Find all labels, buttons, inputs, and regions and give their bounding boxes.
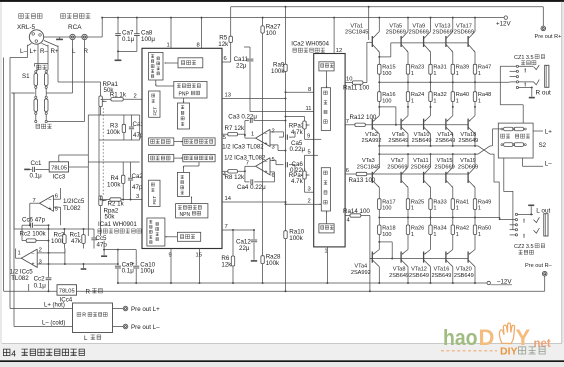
- svg-text:TL082: TL082: [63, 205, 81, 212]
- resistor Ra39 1: [451, 64, 454, 74]
- svg-text:1: 1: [478, 206, 481, 212]
- svg-text:1: 1: [478, 232, 481, 238]
- ICa2 pin 6 / Ra13 100: [345, 173, 356, 175]
- svg-text:VTa4: VTa4: [354, 264, 367, 270]
- wire S1 row connections: [10, 57, 28, 59]
- terminal Pre out L+: [123, 306, 128, 311]
- svg-text:RCA: RCA: [68, 24, 82, 31]
- IC1 pin 1: [170, 18, 172, 49]
- wire VTa15 emitter down: [452, 187, 454, 198]
- svg-text:15: 15: [196, 253, 202, 259]
- resistor Ra9 100k: [284, 64, 287, 71]
- svg-text:TL082: TL082: [11, 275, 29, 282]
- svg-text:100μ: 100μ: [141, 36, 155, 43]
- capacitor Ca5 0.22u: [279, 136, 284, 138]
- svg-text:3: 3: [308, 187, 311, 193]
- arrow ICa2 cc to bias1: [326, 71, 328, 88]
- svg-text:2SB649: 2SB649: [454, 273, 474, 279]
- wire VTa9 collector to +12V rail: [430, 18, 432, 32]
- block PNP diff (top): [174, 81, 207, 98]
- jack CZ2 top wire to ground: [518, 213, 532, 215]
- wire Ra39 to output rail: [452, 74, 454, 82]
- wire lower output rail (y217.5): [379, 217, 500, 219]
- svg-text:Pre out R+: Pre out R+: [535, 34, 562, 40]
- svg-text:2SC1845: 2SC1845: [345, 30, 368, 36]
- connector RCA L: [70, 34, 75, 39]
- svg-text:22μ: 22μ: [239, 245, 250, 252]
- wire row3 base bus extension: [367, 173, 468, 175]
- switch S2 contact row2: [504, 143, 513, 147]
- wire Ra47 to output rail: [474, 74, 476, 82]
- block NPN diff (bottom): [176, 204, 208, 218]
- svg-text:XRL-5: XRL-5: [17, 24, 36, 31]
- svg-text:Cc6 47p: Cc6 47p: [22, 217, 46, 224]
- wire Ra23 to output rail: [407, 74, 409, 82]
- label 非平衡 S2: [515, 134, 518, 138]
- terminal -12V: [487, 281, 490, 284]
- svg-text:+: +: [49, 206, 52, 212]
- wire opamp lower output: [16, 257, 22, 259]
- wire XLR to ground: [44, 36, 60, 38]
- svg-text:R7 12k: R7 12k: [225, 125, 246, 132]
- wire VTa15 collector to mid rail 2: [452, 154, 454, 167]
- svg-text:VTa5: VTa5: [389, 23, 402, 29]
- wire opamp upper inputs: [54, 198, 61, 200]
- wire row3 base bus: [367, 173, 373, 175]
- wire RPa4 bottom to pin3: [304, 179, 306, 192]
- S1 lower contacts: [35, 120, 37, 122]
- label 平衡 S2: [501, 134, 505, 138]
- wire VTa11 collector to mid rail 2: [430, 154, 432, 167]
- svg-text:CZ2 3.5: CZ2 3.5: [514, 244, 534, 250]
- svg-text:Ra23: Ra23: [411, 65, 424, 71]
- svg-text:ICa2 WH0504: ICa2 WH0504: [291, 41, 329, 47]
- svg-text:1/2 ICa3 TL082: 1/2 ICa3 TL082: [222, 145, 264, 151]
- ground left of Cc1: [24, 168, 30, 170]
- svg-text:L: L: [84, 335, 88, 342]
- wire row1 base bus: [391, 42, 468, 44]
- svg-text:2SB649: 2SB649: [435, 138, 455, 144]
- svg-text:–: –: [49, 197, 52, 203]
- jack CZ1 left wiring: [500, 65, 516, 67]
- svg-text:Ra48: Ra48: [478, 92, 491, 98]
- svg-text:+: +: [265, 169, 268, 175]
- bus x=262.6 vertical: [262, 18, 264, 26]
- block 恒流源 ICa2 top: [319, 62, 334, 71]
- svg-text:VTa13: VTa13: [435, 23, 451, 29]
- resistor Ra32 1: [430, 82, 432, 92]
- terminal +12V: [504, 16, 507, 19]
- IC1 pin 14 wire: [222, 201, 286, 203]
- switch S1 contact 2b: [44, 99, 48, 112]
- arrow PNP to driver: [183, 98, 185, 103]
- resistor Ra27 100: [261, 26, 264, 33]
- wire Ra17 to lower output rail: [378, 210, 380, 218]
- wire L- cold: [14, 326, 73, 328]
- svg-text:12: 12: [336, 48, 342, 54]
- svg-text:S2: S2: [539, 142, 547, 149]
- svg-text:100k: 100k: [266, 260, 280, 267]
- svg-text:2SB649: 2SB649: [389, 273, 409, 279]
- wire rail1 to VTa1 base: [368, 7, 370, 40]
- wire VTa4 collector to V- rail: [378, 267, 380, 283]
- svg-text:VTa8: VTa8: [393, 267, 406, 273]
- svg-text:+: +: [32, 262, 35, 268]
- ICa2 pin 1: [326, 247, 328, 283]
- wire long vertical input left A: [3, 58, 5, 292]
- wire opamp upper output: [30, 202, 40, 204]
- wire VTa16 collector to V- rail: [452, 267, 454, 283]
- svg-text:100: 100: [382, 98, 391, 104]
- ground near XLR: [56, 38, 63, 40]
- svg-text:3: 3: [272, 145, 275, 151]
- wire VTa19 collector to mid rail 2: [474, 154, 476, 167]
- block 恒流源 (bottom): [177, 232, 200, 241]
- jack CZ2 wiper arrows: [523, 219, 525, 223]
- svg-text:VTa9: VTa9: [412, 23, 425, 29]
- wire +12V rail (upper): [102, 17, 504, 19]
- IC1 pin 8: [201, 18, 203, 49]
- svg-text:NPN: NPN: [180, 212, 191, 218]
- svg-text:100k: 100k: [107, 129, 121, 136]
- dashed gang line RPa1-RPa2: [102, 108, 104, 196]
- terminal Pre out L-: [123, 324, 128, 329]
- svg-text:0.1μ: 0.1μ: [122, 36, 135, 43]
- switch S2 box: [498, 123, 533, 158]
- svg-text:Ra39: Ra39: [456, 65, 469, 71]
- wire VTa18 collector to mid rail: [474, 134, 476, 146]
- svg-text:Ra50: Ra50: [478, 226, 491, 232]
- switch S1 contact 1b: [44, 74, 48, 86]
- resistor Ra34 1: [430, 218, 432, 226]
- wire VTa19 emitter down: [474, 187, 476, 198]
- wire opamp b input 6: [270, 171, 275, 173]
- block driver (bottom): [177, 172, 189, 196]
- svg-text:47k: 47k: [71, 238, 82, 245]
- svg-text:1: 1: [411, 206, 414, 212]
- svg-text:1: 1: [324, 249, 327, 255]
- svg-text:50k: 50k: [105, 214, 116, 221]
- switch S2 contact row1: [504, 127, 513, 131]
- svg-text:DIY: DIY: [500, 346, 518, 358]
- wire cascade stub VTa8 base: [379, 241, 392, 243]
- resistor Ra33 1: [429, 199, 432, 210]
- wire VTa13 emitter: [452, 52, 454, 64]
- svg-text:1: 1: [411, 71, 414, 77]
- label 道插座 CZ1: [521, 61, 525, 65]
- resistor Ra15 100: [378, 64, 381, 74]
- wire Ra14 to VTa4 base: [361, 215, 370, 217]
- block 与R声道相同: [73, 303, 113, 333]
- svg-text:2SD669: 2SD669: [454, 30, 474, 36]
- svg-text:VTa1: VTa1: [350, 23, 363, 29]
- svg-text:–: –: [32, 251, 35, 257]
- block NPN diff (top): [149, 52, 163, 80]
- svg-text:2: 2: [272, 129, 275, 135]
- connector XRL-5: [29, 30, 43, 44]
- wire opamp a input 2: [270, 131, 284, 133]
- svg-text:VTa17: VTa17: [456, 23, 472, 29]
- resistor Ra31 1: [429, 64, 432, 74]
- wire opamp b output: [238, 170, 245, 172]
- arrow constant current B: [165, 236, 177, 238]
- wire R1 to IC pin2: [123, 98, 142, 100]
- svg-text:D: D: [479, 325, 495, 350]
- svg-text:Pre out R–: Pre out R–: [525, 263, 553, 269]
- ground below Ca7: [115, 59, 122, 61]
- svg-text:VTa12: VTa12: [411, 267, 427, 273]
- svg-text:1: 1: [433, 206, 436, 212]
- svg-text:Ca3 0.22μ: Ca3 0.22μ: [228, 113, 257, 120]
- op-amp 1/2 ICc5 TL082 (lower): [21, 249, 37, 267]
- svg-text:ICc3: ICc3: [53, 174, 66, 181]
- svg-text:2SB649: 2SB649: [412, 138, 432, 144]
- IC ICa1 WH0901 box: [142, 48, 222, 248]
- wire to Pre out L-: [113, 326, 124, 328]
- svg-text:Ra49: Ra49: [478, 199, 491, 205]
- wire busM to ICa2 pin2: [286, 203, 314, 205]
- wire 78L05 top link: [58, 155, 60, 162]
- wire Ca2/R4 top: [88, 161, 139, 163]
- wire 78L05 out: [69, 166, 89, 168]
- svg-text:0.1μ: 0.1μ: [30, 173, 43, 180]
- wire Ra41 to lower output rail: [452, 210, 454, 218]
- wire RPa1 lower: [100, 107, 102, 115]
- arrow driver B up: [183, 166, 185, 172]
- wire cap common to ground: [118, 50, 137, 52]
- svg-text:L+: L+: [545, 129, 552, 136]
- svg-text:VTa10: VTa10: [414, 132, 430, 138]
- IC1 pin 9 wire: [170, 249, 172, 284]
- jack CZ2 contacts: [515, 213, 517, 215]
- svg-text:2SB649: 2SB649: [409, 273, 429, 279]
- wire Ra15 to output rail: [378, 74, 380, 82]
- wire output rail R+ (y82.2): [379, 81, 509, 83]
- svg-text:R: R: [82, 313, 86, 319]
- svg-text:S1: S1: [22, 73, 30, 80]
- wire row4 base bus: [370, 258, 468, 260]
- svg-text:2SD669: 2SD669: [434, 165, 454, 171]
- svg-text:Ra31: Ra31: [433, 65, 446, 71]
- svg-text:Ra15: Ra15: [382, 65, 395, 71]
- svg-text:5: 5: [223, 135, 226, 141]
- ICa2 pin 4 / Ra14 100: [345, 215, 350, 217]
- wire Ra25 to lower output rail: [407, 210, 409, 218]
- svg-text:1: 1: [478, 98, 481, 104]
- switch S1 contact 2a: [34, 99, 38, 112]
- svg-text:1: 1: [251, 132, 254, 138]
- label 平衡 (S1): [37, 65, 41, 69]
- capacitor Ca6 0.22u: [276, 164, 284, 166]
- jack CZ1 plug bar: [545, 65, 549, 87]
- resistor Ra18 100: [378, 218, 380, 226]
- svg-text:L– (cold): L– (cold): [42, 320, 65, 326]
- svg-text:2SD669: 2SD669: [409, 30, 429, 36]
- svg-text:Ra32: Ra32: [433, 92, 446, 98]
- wire RPa4 to ICa2 pin5: [304, 155, 306, 171]
- capacitor Cc5 47p: [93, 229, 95, 237]
- svg-text:8: 8: [197, 43, 200, 49]
- svg-text:VTa2: VTa2: [365, 132, 378, 138]
- wire RCA leads: [72, 40, 74, 58]
- svg-text:10: 10: [346, 77, 352, 83]
- svg-text:12k: 12k: [218, 41, 229, 48]
- wire VTa9 emitter: [430, 52, 432, 64]
- potentiometer RPa2 50k: [99, 196, 102, 206]
- ground below Cc5 branch: [101, 255, 107, 257]
- ground rail y291.2 right part: [285, 290, 287, 292]
- svg-text:100μ: 100μ: [140, 268, 154, 275]
- block driver (top): [177, 103, 189, 129]
- op-amp ICa3b: [256, 158, 270, 175]
- svg-text:VTa19: VTa19: [460, 158, 476, 164]
- svg-text:+: +: [265, 141, 268, 147]
- label 平衡输入: [19, 14, 24, 19]
- svg-text:2SB649: 2SB649: [388, 138, 408, 144]
- wire XLR shield to +12V rail: [60, 36, 103, 38]
- wire VTa3 emitter down: [378, 187, 380, 198]
- capacitor Ca8 100u: [136, 18, 138, 34]
- wire VTa11 emitter down: [430, 187, 432, 198]
- svg-text:Ra25: Ra25: [411, 199, 424, 205]
- wire VTa7 collector to mid rail 2: [407, 154, 409, 167]
- svg-text:6: 6: [224, 56, 227, 62]
- svg-text:2: 2: [308, 199, 311, 205]
- svg-text:R out: R out: [536, 89, 551, 96]
- terminal Pre out R-: [544, 276, 546, 291]
- svg-text:3: 3: [39, 260, 42, 266]
- svg-text:ICa1 WH0901: ICa1 WH0901: [98, 221, 137, 228]
- wire opamp lower input 2: [37, 252, 48, 254]
- svg-text:PNP: PNP: [179, 92, 190, 98]
- IC1 pin 15 wire: [199, 249, 201, 284]
- svg-text:VTa15: VTa15: [437, 158, 453, 164]
- resistor Ra24 1: [407, 82, 409, 92]
- bottom border line: [0, 360, 564, 362]
- capacitor Ca12 22u: [253, 230, 255, 239]
- svg-text:14: 14: [225, 196, 232, 202]
- logo hand icon: [499, 323, 514, 344]
- svg-text:47p: 47p: [132, 184, 143, 191]
- block 互补推挽输出 A: [183, 138, 215, 145]
- wire RPa2 bottom: [100, 206, 102, 236]
- svg-text:100: 100: [382, 206, 391, 212]
- op-amp ICa3a: [256, 129, 270, 146]
- block 互补推挽输出 B: [183, 154, 215, 161]
- resistor Ra23 1: [406, 64, 409, 74]
- svg-text:9: 9: [307, 133, 310, 139]
- wire S2 to L+: [533, 130, 543, 132]
- svg-text:100: 100: [382, 232, 391, 238]
- svg-text:net: net: [534, 338, 551, 350]
- wire Ra33 to lower output rail: [430, 210, 432, 218]
- IC1 pin 7 wire: [222, 229, 254, 231]
- resistor Ra41 1: [451, 199, 454, 210]
- svg-text:9: 9: [169, 253, 172, 259]
- ICa2 pin 9 stub: [314, 138, 322, 140]
- wire VTa13 collector to +12V rail: [452, 18, 454, 32]
- svg-text:100k: 100k: [107, 182, 121, 189]
- block 恒压偏置 A: [149, 138, 174, 145]
- label 道插座 CZ2: [519, 250, 523, 254]
- wire to CZ2 feed A: [490, 154, 510, 220]
- wire VTa2 collector to mid rail: [378, 134, 380, 146]
- svg-text:Y: Y: [516, 325, 531, 350]
- resistor Ra10 100k: [284, 231, 287, 239]
- logo 真有理 text: [519, 347, 526, 354]
- svg-text:12k: 12k: [221, 262, 232, 269]
- svg-text:0.1μ: 0.1μ: [34, 283, 47, 290]
- regulator 78L05 ICc3: [49, 162, 68, 172]
- wire VTa8 collector to V- rail: [407, 267, 409, 283]
- svg-text:Ra41: Ra41: [456, 199, 469, 205]
- svg-text:11: 11: [306, 106, 312, 112]
- wire opamp a input 3: [270, 144, 278, 146]
- wire R3/Ca1 top: [99, 114, 140, 116]
- ground mid: [83, 264, 85, 268]
- svg-text:hao: hao: [443, 325, 478, 350]
- svg-text:Ra18: Ra18: [382, 226, 395, 232]
- potentiometer RPa1 50k: [99, 96, 102, 107]
- svg-text:2: 2: [134, 94, 137, 100]
- ICa2 pin 7 / Ra12 100: [345, 124, 355, 126]
- wire rail1 to Pre out R+: [542, 7, 544, 26]
- wire VTa7 emitter down: [407, 187, 409, 198]
- block FET opamp (top): [149, 91, 160, 117]
- wire Ca9/Ca10 top: [104, 249, 136, 251]
- svg-text:R–: R–: [40, 48, 48, 55]
- resistor Ra47 1: [473, 64, 476, 74]
- svg-text:R8 12k: R8 12k: [225, 174, 246, 181]
- svg-text:100k: 100k: [289, 235, 303, 242]
- capacitor Ca7 0.1u: [117, 18, 119, 34]
- resistor Ra17 100: [378, 199, 381, 210]
- wire VTa14 collector to mid rail: [452, 134, 454, 146]
- svg-text:7: 7: [225, 224, 228, 230]
- svg-text:1: 1: [433, 98, 436, 104]
- wire opamp a output: [245, 137, 256, 139]
- svg-text:2SD669: 2SD669: [386, 30, 406, 36]
- arrow ICa2 cc bottom to bias2: [326, 211, 328, 224]
- top border line: [0, 0, 564, 2]
- svg-text:Ca4 0.22μ: Ca4 0.22μ: [237, 184, 266, 191]
- wire VTa3 collector to mid rail 2: [378, 154, 380, 167]
- svg-text:Rc2 100k: Rc2 100k: [20, 231, 47, 238]
- svg-text:100: 100: [266, 30, 277, 37]
- ICa2 pin 12: [333, 18, 335, 54]
- svg-text:8: 8: [308, 87, 311, 93]
- svg-text:Pre out L–: Pre out L–: [131, 324, 160, 331]
- svg-text:R: R: [86, 289, 91, 296]
- IC1 pin 13 wire: [222, 98, 286, 100]
- svg-text:5: 5: [308, 150, 311, 156]
- label 非平衡输入: [61, 14, 66, 19]
- wire R5 bottom to pin6: [230, 42, 232, 62]
- jack CZ1 tip spring: [534, 65, 540, 70]
- wire to Pre out L+: [113, 308, 124, 310]
- terminal Pre out R+: [541, 26, 546, 31]
- resistor Ra40 1: [452, 82, 454, 92]
- svg-text:R2 1k: R2 1k: [108, 201, 125, 208]
- svg-text:Ra17: Ra17: [382, 199, 395, 205]
- svg-text:FET: FET: [152, 196, 157, 205]
- svg-text:Ra11 100: Ra11 100: [343, 85, 370, 92]
- svg-text:1: 1: [433, 232, 436, 238]
- svg-text:VTa14: VTa14: [437, 132, 453, 138]
- wire rail X crossing: [478, 146, 490, 154]
- svg-text:L–: L–: [20, 48, 27, 55]
- block 偏压调整 2: [321, 168, 330, 211]
